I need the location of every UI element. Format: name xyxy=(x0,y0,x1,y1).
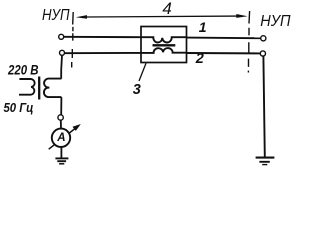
ground (right NUP) xyxy=(256,158,275,165)
terminal circle left bottom xyxy=(60,50,65,55)
wire top line (left segment) xyxy=(64,36,141,38)
transformer T1 secondary winding xyxy=(44,79,61,98)
wire bottom line (right segment) xyxy=(187,52,261,54)
svg-text:1: 1 xyxy=(199,19,207,35)
svg-text:3: 3 xyxy=(133,82,141,98)
ground (ammeter) xyxy=(55,158,68,163)
wire right terminal down to ground xyxy=(263,56,264,157)
device box 3 xyxy=(141,27,187,63)
svg-text:4: 4 xyxy=(162,0,171,18)
line transformer winding 2 (bottom, inside box) xyxy=(141,48,187,53)
line transformer core xyxy=(153,44,176,46)
svg-text:НУП: НУП xyxy=(42,7,70,24)
svg-text:НУП: НУП xyxy=(260,13,291,30)
adjustment arrow through ammeter xyxy=(49,124,81,149)
dimension line 4 (span between NUP points) xyxy=(73,11,250,25)
terminal circle above ammeter xyxy=(58,115,63,120)
wire terminal to ammeter xyxy=(60,120,62,128)
transformer T1 primary winding (220V side) xyxy=(19,79,35,95)
wire bottom line (left segment) xyxy=(64,52,141,54)
svg-text:50 Гц: 50 Гц xyxy=(4,101,34,115)
transformer T1 core xyxy=(38,77,40,100)
svg-text:220 В: 220 В xyxy=(7,62,38,78)
terminal circle left top xyxy=(59,34,64,39)
terminal circle right top xyxy=(261,36,266,41)
wire top line (right segment) xyxy=(187,37,261,40)
boundary dashed line right xyxy=(247,28,250,73)
leader line for label 3 xyxy=(139,63,146,81)
svg-text:2: 2 xyxy=(195,51,204,67)
ammeter A xyxy=(52,129,70,147)
terminal circle right bottom xyxy=(260,51,265,56)
svg-text:А: А xyxy=(56,132,65,144)
boundary dashed line left xyxy=(72,27,73,68)
wire from secondary down to ammeter terminal xyxy=(60,97,62,115)
wire ammeter to ground xyxy=(60,147,62,158)
wire from left bottom terminal down to supply transformer xyxy=(60,55,63,78)
line transformer winding 1 (top, inside box) xyxy=(141,37,187,42)
